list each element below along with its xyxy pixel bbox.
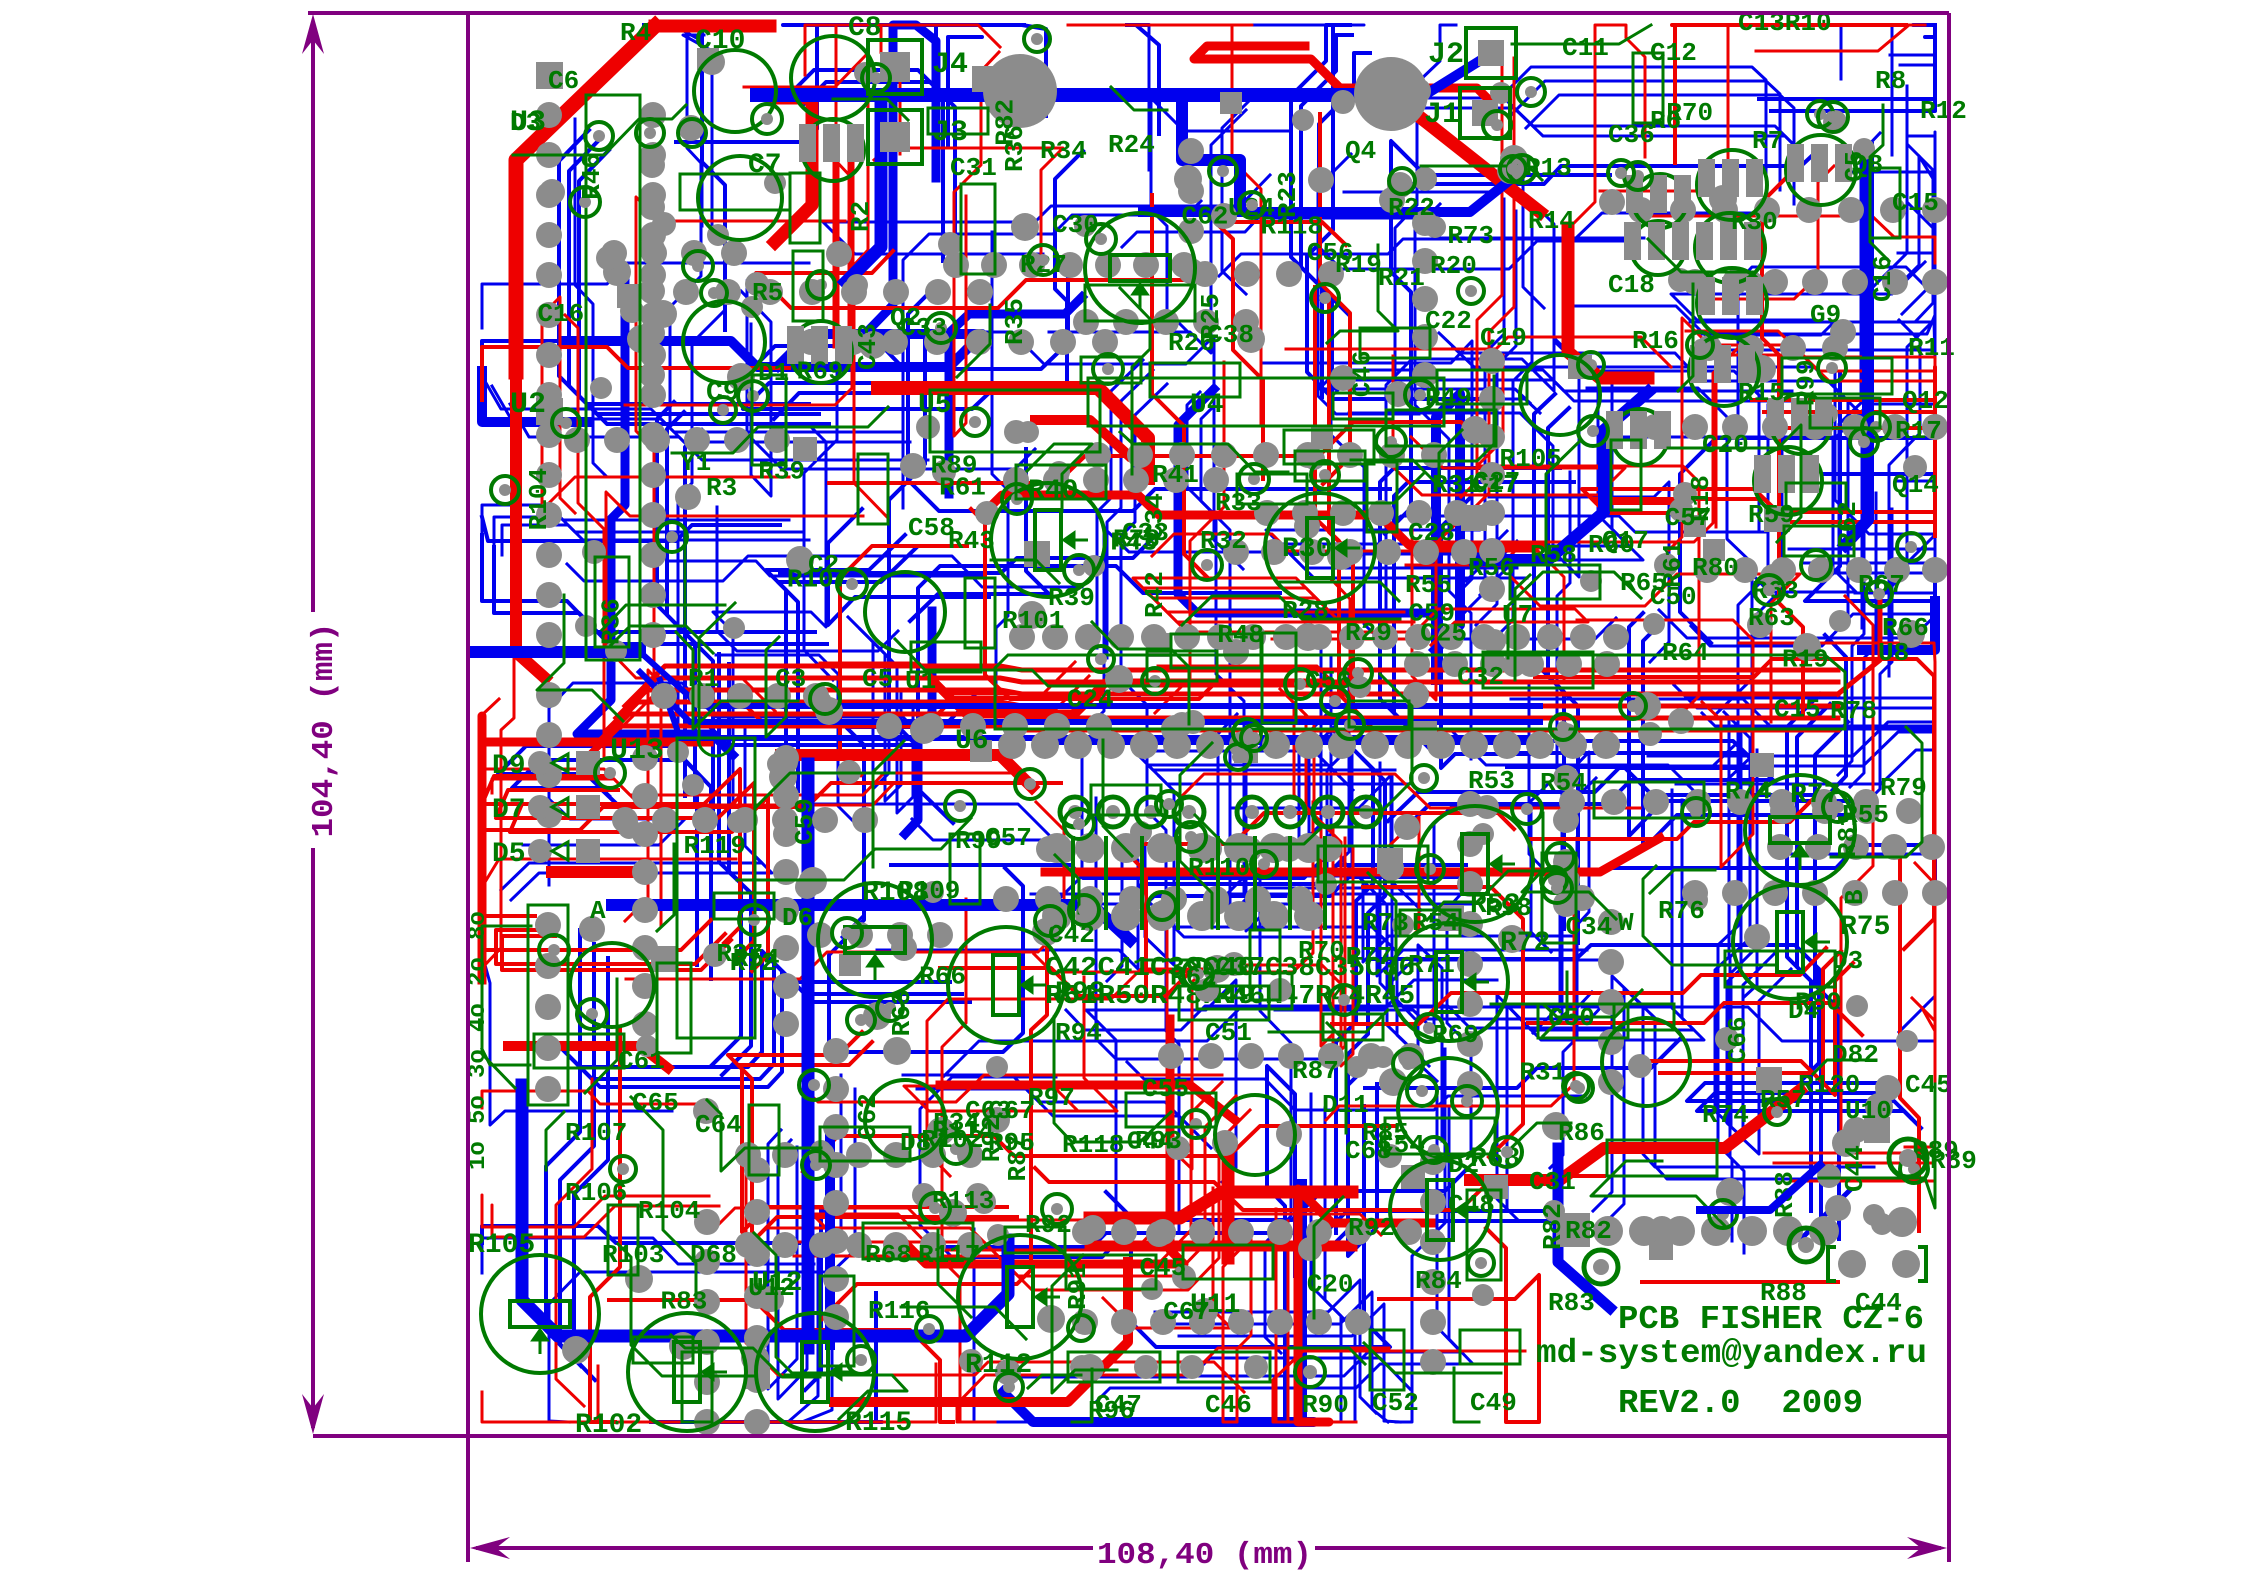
wire red trace f27 [609,1300,953,1422]
pad f75 [1865,1093,1893,1121]
pad U6 toprow12 [1405,624,1431,650]
pad left col b6 [640,342,666,368]
wire blue trace f72 [747,281,1035,469]
wire blue trace f190 [828,509,989,625]
wire blue trace f15 [791,70,943,261]
pad left col b11 [640,542,666,568]
resistor ring f20 [1415,1014,1443,1042]
wire blue trace f167 [549,683,922,885]
svg-text:R82: R82 [1538,1203,1568,1250]
resistor ring f92 [1620,693,1646,719]
resistor ring f83 [1900,1155,1928,1183]
wire blue trace f185 [788,1075,841,1422]
wire green silk f6 [1180,743,1212,928]
pad f73 [582,540,606,564]
wire bottom-left extension drop [466,1436,470,1562]
wire red bottom long [834,1262,1128,1402]
wire green silk f33 [1120,288,1150,474]
wire red trace f29 [1155,362,1224,713]
wire blue trace f169b1 [1476,211,1516,625]
wire red title area [1640,1280,1840,1284]
wire blue trace f151 [1257,1066,1295,1422]
wire green silk f44 [1142,960,1202,972]
resistor ring f53 [1807,101,1833,127]
capacitor C47 [1068,1352,1160,1382]
svg-text:R31: R31 [1519,1058,1566,1088]
component outline f64 [950,834,980,904]
wire blue trace f48 [1230,775,1421,910]
pad row f15 [694,1209,720,1435]
wire red trace f107 [1633,216,1935,263]
svg-text:C24: C24 [1067,685,1114,715]
component outline f41 [1150,363,1240,397]
component outline f32 [1725,951,1835,987]
wire red trace f44 [1315,287,1367,723]
pad bank1 bot1 [1224,901,1254,931]
wire blue trace f20 [877,844,1138,981]
resistor ring f93 [1407,1076,1437,1106]
wire blue trace f55 [804,255,837,680]
resistor ring f31 [1565,1074,1593,1102]
pad left col a12 [536,582,562,608]
wire blue trace f10 [1187,392,1230,881]
wire blue trace f120 [1387,516,1768,532]
pad square f16 [1413,721,1437,745]
wire blue trace f56 [1605,845,1935,886]
svg-text:R73: R73 [1362,908,1409,938]
wire red trace f43 [1841,596,1873,1132]
wire blue trace f161b1 [1771,37,1935,111]
wire blue trace f43b1 [1728,419,1782,779]
svg-text:C50: C50 [1650,582,1697,612]
component outline f66 [1786,483,1846,509]
wire blue trace f16 [1690,144,1933,322]
wire red trace f81b2 [502,936,731,970]
wire blue trace f194 [1511,699,1935,789]
wire red trace f31 [482,769,740,943]
wire red trace f53 [806,1214,1381,1250]
component outline f26 [961,184,995,274]
component outline f11 [1016,465,1106,499]
pad left col b12 [640,582,666,608]
wire blue trace f47 [1890,27,1935,57]
component outline f42 [1510,565,1600,599]
wire blue trace f96 [1263,341,1472,594]
ic U5 outline [930,390,1100,452]
pad f165 [1346,1056,1368,1078]
wire blue trace f26b1 [1548,408,1578,943]
wire blue trace f111b1 [1480,381,1643,595]
wire green silk f77 [685,530,713,653]
pad f13 [1330,365,1356,391]
wire blue trace f95b1 [860,629,901,801]
pad U4 row3 [1211,442,1237,468]
pad square f5 [839,954,861,976]
pad left col b3 [640,222,666,248]
wire blue trace f3b1 [948,37,982,146]
svg-text:R74: R74 [1725,776,1772,806]
wire blue trace f110 [1691,593,1935,646]
resistor ring f42 [1321,687,1349,715]
resistor ring f12 [1862,413,1890,441]
resistor ring f81 [1148,892,1176,920]
pad square f21 [617,284,641,308]
pad bank1 top3 [1294,833,1324,863]
svg-text:R105: R105 [468,1230,535,1261]
pad f27 [1166,1136,1190,1160]
wire red trace f86 [1669,318,1716,550]
wire blue trace f165 [482,517,780,541]
ic U6 outline [995,655,1845,729]
svg-text:R55: R55 [1405,570,1452,600]
pad f189 [1181,710,1205,734]
wire blue trace f25b1 [492,386,910,442]
wire red bus line 2 [607,690,1838,730]
transistor Q12 [1767,394,1832,454]
wire green silk f4 [537,595,623,721]
wire blue trace f67 [1260,862,1291,1353]
wire red trace f18 [1756,25,1925,51]
wire red trace f13b1 [1143,588,1414,622]
pad bank0 bot3 [1147,901,1177,931]
wire green silk f72 [1327,245,1398,343]
wire blue trace f74b1 [1797,704,1830,1221]
svg-text:R15: R15 [1738,378,1785,408]
svg-text:J1: J1 [1424,98,1460,132]
wire blue trace f122 [1384,98,1792,143]
svg-text:R48: R48 [1217,620,1264,650]
svg-text:R53: R53 [1468,766,1515,796]
svg-text:J2: J2 [1428,38,1464,72]
wire green silk f1 [873,741,904,867]
wire green silk f67 [957,305,990,377]
pad f6 [939,1199,967,1227]
capacitor big f2 [1602,1018,1690,1106]
wire blue trace f0 [1371,945,1819,1079]
svg-text:C49: C49 [1470,1388,1517,1418]
wire green silk f30 [754,1233,837,1373]
connector J4 [868,40,922,94]
wire blue trace f12b1 [1803,360,1935,610]
pad U2 pin square [536,398,563,425]
node ring row 1 [1098,797,1128,827]
resistor ring f7 [539,935,569,965]
wire blue trace f42 [1898,253,1935,500]
wire red trace f48 [1320,114,1350,484]
pad f169 [1276,1121,1302,1147]
pad U6 toprow4 [1141,624,1167,650]
wire red trace f28 [730,690,1099,722]
pad f48 [1394,814,1420,840]
pad row f34 [744,1157,770,1435]
pad title row 0 [1593,1216,1623,1246]
resistor ring f49 [1687,332,1713,358]
pad square f14 [1684,515,1706,537]
component outline f40 [1810,398,1880,428]
wire blue trace f121 [1550,838,1577,1168]
wire blue trace f111 [1466,367,1629,581]
pad f94 [815,697,843,725]
resistor ring f114 [1458,278,1484,304]
resistor ring f73 [1002,484,1032,514]
wire blue trace f172 [1680,438,1935,643]
resistor ring f2 [1311,284,1339,312]
pad row f30 [1404,651,1620,677]
resistor ring f67 [877,995,903,1021]
pad U6 row5 [1163,731,1191,759]
svg-text:R116: R116 [868,1296,930,1326]
wire blue trace f73b1 [1730,724,1750,1253]
svg-text:REV2.0 2009: REV2.0 2009 [1618,1385,1863,1422]
pad row f19 [536,682,562,828]
svg-text:Q4: Q4 [1345,136,1376,166]
wire thick red left trace [516,372,545,678]
pad square f22 [1311,427,1333,449]
wire blue trace f59 [567,556,1082,587]
transistor Q7 [1695,213,1765,283]
pad U6 row2 [1064,731,1092,759]
wire red trace f44b1 [1329,301,1381,737]
wire blue trace f74 [1787,694,1820,1211]
wire blue trace f79b1 [1400,753,1773,833]
pad square title row [1556,1213,1590,1247]
pad f62 [596,246,620,270]
wire red trace f103 [606,492,863,711]
pad row f43 [651,683,829,709]
resistor ring f87 [995,1373,1023,1401]
wire red trace f62 [1103,1188,1231,1328]
resistor ring f23 [926,313,956,343]
pad U6 toprow14 [1471,624,1497,650]
pad square f10 [1764,506,1790,532]
pad f103 [859,331,887,359]
wire blue trace f158 [1291,25,1342,397]
resistor ring f77 [1028,245,1058,275]
pad U6 row1 [1031,731,1059,759]
pad f100 [675,484,701,510]
pad f154 [1294,623,1322,651]
pad bank0 bot0 [1042,901,1072,931]
wire red trace f95 [1223,1229,1251,1422]
transistor Q1 [787,321,852,383]
potentiometer R72 [1390,923,1508,1041]
wire blue trace f99b1 [1097,1109,1473,1401]
svg-text:R107: R107 [565,1118,627,1148]
wire blue left loop [522,1085,1008,1336]
svg-text:R66: R66 [919,961,966,991]
wire green silk f27 [1327,1023,1346,1133]
wire blue trace f142 [1344,168,1544,308]
resistor ring f40 [1764,1099,1790,1125]
wire blue trace f191 [1529,686,1560,1033]
pad U6 row4 [1130,731,1158,759]
pad f2 [741,296,763,318]
pad f89 [891,935,917,961]
pad U6 toprow7 [1240,624,1266,650]
component outline f51 [1367,462,1397,532]
wire green silk f63 [602,605,725,630]
svg-text:R63: R63 [887,989,917,1036]
pad f12 [1498,925,1526,953]
wire blue trace f46 [1805,374,1935,601]
pad f166 [1846,995,1868,1017]
pad U6 row9 [1295,731,1323,759]
svg-text:R39: R39 [758,456,805,486]
pad left col a8 [536,422,562,448]
wire blue trace f161 [1759,25,1935,99]
pad f167 [883,1037,911,1065]
resistor ring f56 [1182,1110,1210,1138]
wire red trace f17 [1332,948,1826,1024]
wire blue trace f39 [891,855,1327,878]
capacitor C49 [1460,1330,1520,1364]
resistor ring f102 [1500,156,1526,182]
svg-text:C8: C8 [848,13,882,44]
wire red trace f14b2 [1300,709,1353,1066]
wire blue trace f185b1 [802,1089,855,1422]
wire red trace f36 [822,933,1047,1319]
svg-text:R42: R42 [1140,571,1170,618]
resistor ring f62 [807,271,835,299]
pad U4 row4 [1253,442,1279,468]
svg-text:R69: R69 [797,356,844,386]
svg-text:C27: C27 [1473,467,1520,497]
component outline f31 [1262,633,1296,723]
wire red trace f8 [1752,367,1935,507]
wire red trace f50 [1461,46,1502,497]
svg-text:R16: R16 [1632,326,1679,356]
resistor ring f113 [1035,906,1065,936]
wire red vertical pair b [848,150,855,345]
component outline f36 [1633,53,1663,123]
wire blue trace f29 [1395,25,1456,388]
svg-text:R3: R3 [706,473,737,503]
potentiometer R30 [1265,493,1375,603]
wire blue trace f47b1 [1900,37,1935,67]
resistor ring f1 [1156,791,1182,817]
wire red trace f101 [1068,25,1261,423]
pad U6 row8 [1262,731,1290,759]
resistor ring f11 [1801,550,1831,580]
wire thick blue top bus [757,88,1355,102]
pad f32 [699,49,725,75]
pad U6 row16 [1526,731,1554,759]
wire red trace f19 [625,25,852,405]
wire red trace f79 [1296,817,1419,946]
wire red trace f89b2 [848,690,1103,722]
wire red trace f34 [803,1126,1396,1172]
wire green silk f74 [1314,1197,1343,1318]
wire red trace f55 [1167,926,1341,1169]
pad f37 [1379,1068,1407,1096]
wire red trace f98b2 [1710,355,1935,411]
resistor ring f14 [1850,428,1878,456]
wire blue trace f176 [1441,498,1541,768]
pad f140 [799,867,827,895]
wire blue trace f122b1 [1394,108,1802,153]
pad square f17 [1438,905,1464,931]
wire green silk f70 [482,1049,530,1065]
pad f1 [1668,268,1692,292]
svg-text:R83: R83 [1548,1288,1595,1318]
pad f26 [1638,722,1662,746]
wire blue U6 bottom row bus [1040,739,1540,745]
wire blue trace f168 [823,175,1270,254]
pad row f28 [1479,348,1505,602]
pad U6 row13 [1427,731,1455,759]
wire green silk f53 [1668,425,1801,542]
pad f177 [1331,90,1355,114]
component outline f8 [1005,1227,1065,1253]
wire red bus line 4 [589,714,1838,754]
wire blue trace f139b2 [1526,95,1794,204]
wire red trace f63 [1215,222,1346,479]
svg-text:C18: C18 [1608,270,1655,300]
wire green silk f58 [1870,105,1889,261]
component outline f21 [1081,357,1141,383]
resistor ring f54 [1336,711,1364,739]
wire blue trace f125 [740,258,1068,381]
wire red trace f88 [1035,1168,1604,1210]
wire blue trace f94 [1348,1059,1377,1256]
resistor R89 ring [1889,1139,1927,1177]
svg-text:C67: C67 [1163,1297,1210,1327]
component outline f20 [1360,328,1430,358]
wire blue trace f52 [482,341,583,366]
potentiometer R108 [818,883,932,997]
wire red trace f60 [1152,534,1564,678]
component outline f16 [1385,1118,1495,1154]
wire blue trace f88 [1582,1007,1935,1041]
pad bank0 top1 [1075,833,1105,863]
pad f74 [1628,1054,1652,1078]
wire blue trace f138b1 [948,1221,1579,1257]
svg-text:R90: R90 [1302,1390,1349,1420]
ic U3 outline [586,95,640,660]
component outline f22 [793,251,823,321]
wire blue trace f115 [1418,945,1442,1141]
svg-text:R70: R70 [1298,936,1345,966]
pad f39 [539,179,565,205]
wire bottom dimension line right [1315,1546,1941,1550]
svg-text:R30: R30 [1731,207,1778,237]
wire blue trace f14 [1715,722,1763,1126]
pad f78 [1018,601,1046,629]
diode D9 [492,751,600,782]
svg-text:C32: C32 [1457,662,1504,692]
pad f104 [1080,1215,1106,1241]
svg-text:R96: R96 [1088,1396,1135,1426]
wire blue trace f69 [1907,86,1935,559]
svg-text:R2: R2 [846,201,876,232]
wire red trace f90b1 [1660,963,1853,1095]
pad f107 [1817,1164,1841,1188]
wire blue trace f139 [1498,67,1766,176]
wire blue trace f193 [847,868,1023,1052]
wire blue trace f192 [1130,865,1466,896]
wire blue trace f81 [678,311,724,735]
resistor ring f35 [1818,354,1846,382]
component outline f13 [752,375,786,465]
component outline f56 [911,642,981,672]
wire red trace f56 [1152,195,1208,578]
wire red trace f21 [482,1366,656,1422]
pad U13 lb7 [773,1011,799,1037]
capacitor big f3 [1215,1095,1295,1175]
potentiometer R111x [1390,1160,1490,1260]
resistor ring f64 [1241,725,1267,751]
pad f49 [590,377,612,399]
